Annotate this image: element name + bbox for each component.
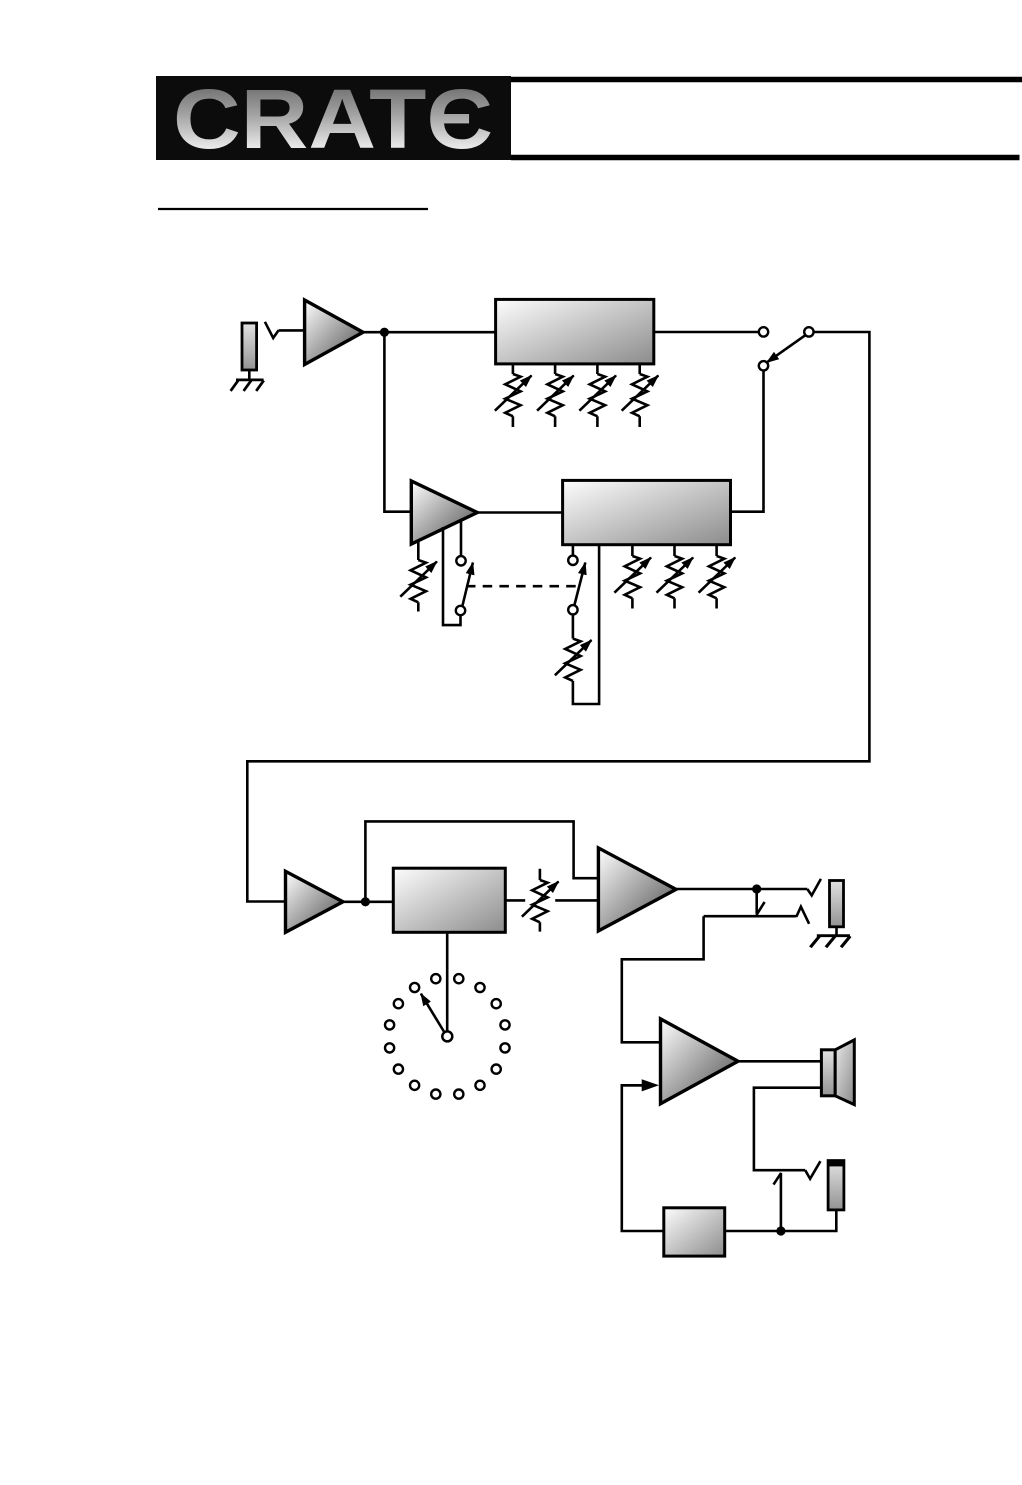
svg-text:CRATЄ: CRATЄ bbox=[173, 72, 493, 166]
